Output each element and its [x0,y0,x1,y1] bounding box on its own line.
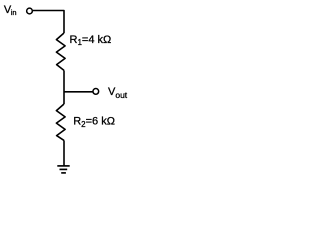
resistor R1 [56,33,65,70]
wire from Vin terminal to top corner and down to R1 [33,11,64,34]
wire from R2 to ground [63,140,65,165]
terminal Vout [93,89,99,95]
svg-text:Vout: Vout [108,86,128,100]
resistor R2 [56,104,65,140]
svg-text:Vin: Vin [4,4,17,17]
wire node to Vout terminal [64,91,93,93]
svg-text:R2=6 kΩ: R2=6 kΩ [73,116,115,129]
ground [57,165,69,167]
terminal Vin [27,8,33,14]
wire from R1 to node [63,70,65,104]
svg-text:R1=4 kΩ: R1=4 kΩ [70,34,112,47]
